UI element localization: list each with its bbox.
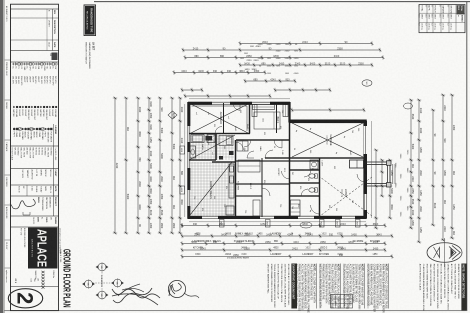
eaves line left lower [189,98,290,100]
horizontal dimension line y=88 [381,160,383,196]
vertical dimension line x=57.5 [185,57,383,59]
wall: x133 bottom-left [189,133,250,135]
wall: wc x196 [290,195,320,197]
bath laundry tile grid [190,135,234,161]
door swing [262,188,270,196]
door swing [244,140,251,147]
vertical dimension line x=236 [182,235,392,237]
door swing [357,174,365,182]
approval scribble [10,199,35,209]
window opening [252,102,270,105]
tiled area grid [190,162,234,217]
wall: top [363,121,367,218]
porch steps [392,164,394,184]
signature scribble 1 [112,289,160,298]
note block at 81.5 [388,264,390,309]
APLACE logo box [28,228,58,269]
wall: bottom [187,102,190,219]
wall: step connector [288,102,290,123]
alfresco diagonal [191,104,248,133]
title block bottom strip [10,4,12,310]
horizontal dimension line y=298 [171,98,173,233]
porch pillars [387,161,392,166]
title block outer [11,4,59,310]
vanity [190,146,196,158]
signature scribble 2 [112,288,158,305]
alfresco diagonal 2 [191,104,248,133]
scan bottom edge dark band [0,0,3,313]
horizontal dimension line y=290 [179,98,181,233]
wall: y180 full [289,103,291,217]
horizontal dimension line y=332 [137,98,139,233]
sheet left border line [94,1,470,3]
robe 1 [283,105,288,117]
garage door opening [364,126,367,154]
window opening [187,152,190,168]
door swing [233,103,240,110]
wall: x161 hall long [236,160,320,162]
tiled area diagonal [190,162,232,215]
wc pan 1 [309,174,315,178]
door swing [301,189,308,196]
living dashed cross [320,177,372,216]
note block at 129.5 [340,264,342,309]
horizontal dimension line y=94 [375,150,377,228]
horizontal dimension line y=344 [125,98,127,233]
horizontal dimension line y=59 [410,100,412,228]
elevation connector line [101,272,103,290]
niche near top wall [350,160,364,168]
door swing [265,150,273,158]
wall: wet x183 [290,182,320,184]
north point emblem [427,238,462,267]
horizontal dimension line y=310 [159,98,161,233]
wall: left upper garage [289,120,367,124]
wall: living y150 [319,158,321,217]
wall: x158 lower [265,157,290,159]
tub [191,135,204,143]
sheet number oval [8,289,42,308]
signature flourish [118,284,144,296]
oval tag right of plan [300,222,312,228]
signature circle stamp [168,280,185,297]
window opening [364,194,367,210]
oval window tag top-left [362,80,372,86]
horizontal dimension line y=51 [418,100,420,242]
horizontal dimension line y=321 [148,98,150,233]
door swing [282,171,290,179]
vertical dimension line x=81 [245,80,295,82]
oval tag on dim line [404,103,413,109]
horizontal dimension line y=37 [432,110,434,225]
wall: right [188,216,367,219]
elevation marker circle [96,290,109,299]
door swing [304,170,311,177]
area schedule table [419,5,465,33]
wc pan 2 [309,188,315,192]
elevation marker circle [82,279,95,288]
wall: hall x140 [236,139,289,141]
note smoke detectors header [461,264,466,311]
vertical dimension line x=65 [240,64,372,66]
alfresco inner border [192,106,248,131]
wall: garage right [289,157,366,159]
elevation marker circle [96,262,109,271]
door swing [311,205,320,214]
note block at 105.5 [364,264,366,309]
window opening [260,216,274,219]
elevation marker circle [111,278,124,287]
kitchen bench [229,164,234,198]
rangehood stamp [84,5,96,37]
wall: bath box [215,134,217,161]
door swing [215,127,222,134]
horizontal dimension line y=18 [451,95,453,238]
window opening [187,190,190,206]
window opening [212,102,230,105]
vertical dimension line x=110 [292,109,364,111]
revision table header [52,9,54,51]
vertical dimension line x=250 [182,249,385,251]
wall: wet x170 [290,169,320,171]
vertical dimension line x=90 [275,89,330,91]
title block vertical dividers [11,8,59,10]
garage cross brace [292,123,363,157]
wall: y208 [261,158,263,217]
wall: y234 kitchen [235,140,237,217]
window opening [298,216,314,219]
porch outline [367,162,390,186]
window schedule mini table [331,295,353,309]
sheet right border line [4,310,467,312]
horizontal dimension line y=80 [389,160,391,218]
wall: left lower [188,102,290,105]
door swing [236,142,244,150]
bath diagonal [189,135,235,160]
sink [230,166,234,172]
eaves line bottom [184,104,186,217]
sheet top border line [466,2,468,311]
linen [237,141,248,151]
signature tail [184,293,199,298]
eaves line right [189,221,366,223]
laundry bench [219,136,233,146]
bracket mark [23,212,30,215]
area table total blob [457,5,465,14]
vertical dimension line x=72.5 [174,72,265,74]
diamond tag below plan [168,111,177,119]
fridge [226,206,234,215]
wall: y220 bottom-left [249,103,251,134]
vertical dimension line x=43.5 [240,43,372,45]
bottom strip cells [5,59,11,61]
horizontal dimension line y=27 [442,95,444,240]
laundry trough [310,160,318,169]
horizontal dimension line y=355 [114,98,116,233]
robe 3 [253,105,275,110]
vertical dimension line x=50 [183,49,380,51]
note block at 153.5 [316,264,318,309]
vertical dimension line x=96 [185,95,270,97]
wir shelves [238,160,260,172]
window opening [187,126,190,142]
extra tag box [335,220,340,228]
window tag boxes [355,220,360,228]
wall: x162 tiled [212,161,236,163]
dark kitchen appliances [229,151,234,155]
eaves line top [371,121,373,218]
window opening [342,216,355,219]
legend column 2 [55,106,57,108]
vertical dimension line x=90 [182,89,202,91]
issue stamp cell [52,53,58,61]
vertical dimension line x=256.5 [182,256,392,258]
pantry shelves [291,200,301,216]
wall: y246 ens [223,103,225,133]
evaporative cooling note header [291,264,297,309]
divider before sheet cell [11,286,59,288]
window opening [202,216,218,219]
door swing [274,140,282,148]
wall: x196 lower [236,195,262,197]
floor plan group [187,102,395,219]
door swing [247,151,254,158]
legend column 1 symbols [55,63,57,65]
shower [207,135,215,143]
vertical dimension line x=225.5 [182,225,385,227]
vertical dimension line x=243.5 [182,243,385,245]
robe 2 [252,105,257,117]
study nook desk [253,200,260,216]
dark fixture [206,136,213,141]
bed outline 1 [254,112,280,129]
wall: x184 hall long [236,183,290,185]
wall: y193 [276,103,278,133]
